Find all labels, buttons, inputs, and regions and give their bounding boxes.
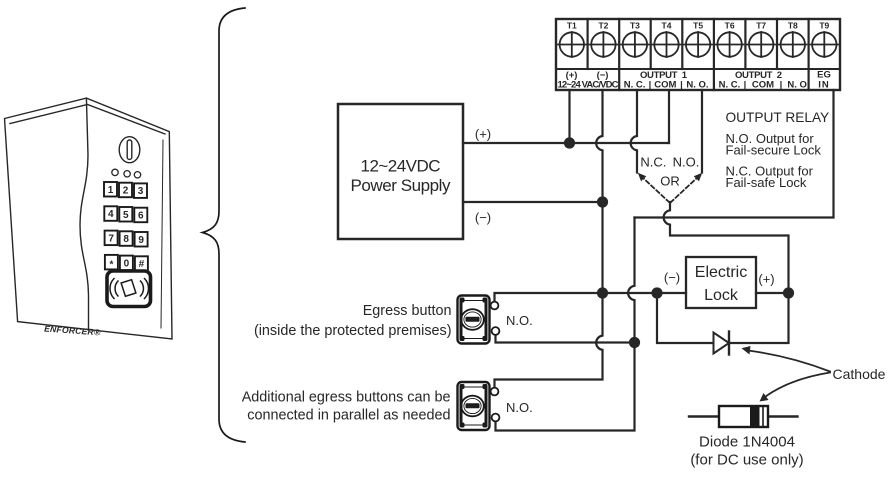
electric lock label [695, 264, 747, 304]
svg-text:(+): (+) [758, 272, 774, 287]
right bevel [161, 140, 163, 328]
svg-text:|: | [744, 80, 747, 91]
svg-text:#: # [139, 259, 145, 270]
svg-text:Cathode: Cathode [833, 366, 886, 382]
wire: lock (+) to relay node [756, 292, 789, 294]
curly brace [203, 8, 246, 442]
dashed selector wire to N.O. [671, 177, 699, 203]
terminal block outline [556, 19, 840, 90]
dashed selector wire to N.C. [642, 177, 670, 203]
svg-text:(−): (−) [475, 210, 491, 225]
terminal block bottom labels [558, 70, 831, 91]
svg-text:T8: T8 [788, 21, 798, 31]
svg-text:T6: T6 [725, 21, 735, 31]
top face front edge [10, 105, 165, 135]
svg-text:7: 7 [108, 233, 114, 244]
svg-text:OR: OR [660, 174, 680, 189]
svg-text:*: * [109, 260, 113, 271]
body outline [5, 98, 173, 339]
wire: EG vertical with hop over minus rail [496, 218, 635, 431]
svg-text:Fail-secure Lock: Fail-secure Lock [726, 143, 822, 158]
svg-text:EXIT: EXIT [468, 404, 478, 409]
svg-text:T7: T7 [756, 21, 766, 31]
svg-text:1: 1 [108, 185, 114, 196]
svg-text:Power Supply: Power Supply [351, 176, 452, 195]
svg-text:12~24VDC: 12~24VDC [361, 157, 441, 176]
junction dot: T2 x minus rail [597, 287, 608, 298]
svg-text:Diode 1N4004: Diode 1N4004 [699, 434, 795, 451]
keypad keys [104, 182, 148, 271]
svg-text:|: | [680, 80, 683, 91]
wire: minus rail from egress button to lock [495, 293, 687, 302]
svg-text:|: | [780, 80, 783, 91]
svg-text:N.O.: N.O. [673, 155, 700, 170]
svg-text:5: 5 [123, 210, 129, 221]
svg-text:Additional egress buttons can: Additional egress buttons can be [242, 390, 451, 406]
wire: power supply (+) to T4 COM [463, 142, 669, 144]
terminal screws T1-T9 [558, 32, 839, 57]
junction dot: diode branch on minus rail [651, 287, 662, 298]
svg-text:6: 6 [138, 211, 144, 222]
proximity reader pad [107, 271, 151, 307]
svg-text:Lock: Lock [704, 287, 739, 304]
junction dot: lock + node [783, 287, 794, 298]
wire: T4 riser [668, 90, 670, 143]
svg-text:N. O.: N. O. [686, 80, 708, 91]
cathode pointer to diode symbol [748, 351, 830, 372]
power supply label [351, 157, 452, 196]
svg-text:N.O.: N.O. [506, 400, 533, 415]
svg-text:|: | [649, 80, 652, 91]
junction dot: +/T1 [564, 137, 575, 148]
svg-text:8: 8 [123, 234, 129, 245]
wire: T9 EG IN riser, across and down left side [635, 90, 834, 218]
cathode pointer to package band [766, 373, 831, 397]
svg-text:N.C.: N.C. [640, 155, 666, 170]
svg-text:(inside the protected premises: (inside the protected premises) [254, 323, 452, 339]
keypad unit drawing [5, 98, 173, 339]
junction dot: -/T2 [597, 196, 608, 207]
svg-text:12~24 VAC/VDC: 12~24 VAC/VDC [558, 80, 619, 91]
svg-text:N. C.: N. C. [624, 80, 646, 91]
svg-text:OUTPUT RELAY: OUTPUT RELAY [726, 110, 830, 125]
svg-text:T3: T3 [630, 21, 640, 31]
wire: T3 riser with hop, to N.C. arrow [631, 90, 637, 173]
svg-text:3: 3 [138, 186, 144, 197]
svg-text:4: 4 [108, 209, 114, 220]
svg-text:COM: COM [752, 80, 774, 91]
svg-text:T2: T2 [598, 21, 608, 31]
wire: power supply (-) to T2 [463, 201, 603, 203]
wire: egress button1 lower to EG line [496, 335, 634, 343]
diode D1 symbol [714, 333, 730, 354]
svg-text:IN: IN [818, 80, 830, 91]
wire: T1 riser [568, 90, 570, 143]
physical diode package [689, 406, 798, 427]
electric lock box [686, 257, 756, 308]
svg-text:Electric: Electric [695, 264, 747, 281]
egress button SW1 [458, 296, 500, 344]
junction dot: EG x button wires [629, 337, 640, 348]
OUTPUT RELAY note [726, 110, 830, 190]
svg-text:N. C.: N. C. [719, 80, 741, 91]
svg-text:T5: T5 [693, 21, 703, 31]
svg-text:Egress button: Egress button [363, 303, 452, 319]
caption: egress button [254, 303, 452, 339]
svg-text:(for DC use only): (for DC use only) [690, 452, 803, 469]
wire: T5 riser to N.O. arrow [701, 90, 703, 173]
svg-text:2: 2 [123, 186, 129, 197]
terminal labels T1-T9 [567, 21, 830, 31]
svg-text:0: 0 [124, 258, 130, 269]
svg-text:(+): (+) [475, 127, 491, 142]
caption: additional egress buttons [242, 390, 451, 424]
svg-text:9: 9 [138, 235, 144, 246]
wire: diode branch left riser [657, 293, 714, 343]
svg-text:COM: COM [654, 80, 676, 91]
hood front-left edge [80, 98, 89, 330]
svg-text:T9: T9 [819, 21, 829, 31]
wire: diode to + riser [729, 293, 789, 343]
speaker oval [119, 137, 140, 163]
svg-text:(−): (−) [664, 270, 680, 285]
LED indicators [112, 169, 118, 175]
svg-text:T1: T1 [567, 21, 577, 31]
svg-text:N. O.: N. O. [787, 80, 809, 91]
svg-text:N.O.: N.O. [506, 313, 533, 328]
wire: relay common output down to lock (+), hops EG wire [664, 202, 789, 293]
svg-text:T4: T4 [662, 21, 672, 31]
svg-text:EXIT: EXIT [468, 317, 478, 322]
svg-text:Fail-safe Lock: Fail-safe Lock [726, 175, 807, 190]
power supply box U1 [338, 104, 463, 239]
wire: T2 riser with hop over + wire [495, 90, 603, 388]
label diode [690, 434, 803, 469]
egress button SW2 [458, 382, 500, 430]
svg-text:connected in parallel as neede: connected in parallel as needed [247, 408, 450, 424]
